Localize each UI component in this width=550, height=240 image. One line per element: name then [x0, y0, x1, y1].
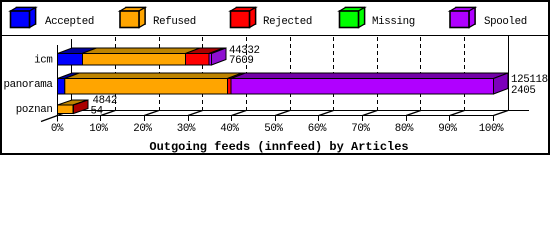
x-axis left tail [41, 116, 58, 122]
icm front blue Accepted [58, 54, 83, 66]
svg-text:80%: 80% [395, 123, 414, 135]
gridlines dashed 10%-90% [116, 36, 509, 110]
legend cube Missing [340, 8, 365, 28]
svg-text:0%: 0% [51, 123, 64, 135]
y-axis front line [57, 45, 59, 122]
panorama top face orange [65, 73, 242, 79]
x-axis back bottom line [72, 110, 530, 112]
svg-text:poznan: poznan [16, 104, 53, 116]
legend cube Rejected [231, 8, 256, 28]
gridline 100% solid [508, 36, 510, 110]
icm side face purple [212, 48, 227, 65]
svg-text:panorama: panorama [3, 79, 53, 91]
panorama front purple Spooled [231, 79, 494, 95]
poznan side face red [74, 100, 89, 114]
bar poznan [58, 100, 89, 114]
panorama front blue Accepted [58, 79, 65, 95]
svg-text:Spooled: Spooled [484, 16, 527, 28]
svg-text:20%: 20% [133, 123, 152, 135]
svg-text:50%: 50% [264, 123, 283, 135]
svg-text:100%: 100% [479, 123, 504, 135]
icm top face blue [58, 48, 97, 54]
bar icm [58, 48, 227, 65]
x-axis labels [51, 123, 504, 135]
panorama front orange Refused [65, 79, 228, 95]
svg-text:icm: icm [34, 55, 52, 67]
poznan front red Rejected [72, 105, 75, 114]
svg-text:40%: 40% [220, 123, 239, 135]
svg-text:Rejected: Rejected [263, 16, 312, 28]
poznan top face orange [58, 100, 88, 105]
legend cube Accepted [11, 8, 36, 28]
x-axis front bottom line [57, 115, 494, 117]
svg-text:Accepted: Accepted [45, 16, 94, 28]
svg-text:2405: 2405 [511, 85, 536, 97]
svg-text:30%: 30% [177, 123, 196, 135]
icm top face orange [82, 48, 200, 54]
legend cube Refused [120, 8, 145, 28]
icm front red Rejected [186, 54, 210, 66]
svg-text:60%: 60% [308, 123, 327, 135]
svg-text:Outgoing feeds (innfeed) by Ar: Outgoing feeds (innfeed) by Articles [149, 140, 408, 154]
legend divider line [0, 35, 550, 37]
icm top face purple [209, 48, 226, 54]
panorama top face red [228, 73, 246, 79]
svg-text:10%: 10% [89, 123, 108, 135]
panorama front red Rejected [228, 79, 232, 95]
axis step diagonals and front ticks [57, 111, 508, 116]
panorama top face purple [231, 73, 508, 79]
panorama side face purple [494, 73, 509, 94]
svg-text:Missing: Missing [372, 16, 415, 28]
border frame [1, 1, 549, 154]
poznan front orange Refused [58, 105, 74, 114]
svg-text:54: 54 [91, 105, 103, 117]
bar panorama [58, 73, 509, 94]
svg-text:70%: 70% [351, 123, 370, 135]
svg-text:125118: 125118 [511, 74, 548, 86]
icm front orange Refused [83, 54, 186, 66]
y-axis back line [71, 39, 73, 110]
legend cube Spooled [450, 8, 475, 28]
svg-text:7609: 7609 [229, 55, 254, 67]
svg-text:90%: 90% [438, 123, 457, 135]
poznan top face red [73, 100, 88, 105]
icm top face red [186, 48, 224, 54]
panorama top face blue [58, 73, 80, 79]
icm front purple Spooled [209, 54, 212, 66]
svg-text:Refused: Refused [153, 16, 196, 28]
